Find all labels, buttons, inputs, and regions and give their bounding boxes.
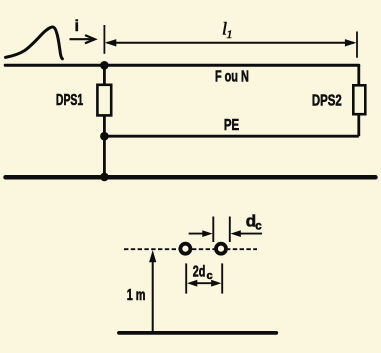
svg-text:c: c <box>255 221 262 233</box>
svg-text:1 m: 1 m <box>127 287 146 304</box>
dimension dc left arrow <box>189 233 206 235</box>
svg-text:i: i <box>75 18 79 35</box>
wire: DPS2 vertical branch <box>357 65 360 136</box>
dimension dc left tick <box>212 217 214 243</box>
impulse current waveform <box>6 27 63 59</box>
svg-text:DPS2: DPS2 <box>312 92 342 109</box>
dimension l1 right arrowhead <box>345 39 357 46</box>
dimension dc right tick <box>229 217 231 243</box>
dashed reference line through conductors <box>124 248 257 250</box>
svg-text:1: 1 <box>227 27 233 41</box>
dimension l1 left arrowhead <box>105 39 117 46</box>
dimension 2dc arrow line <box>192 282 216 284</box>
node: junction earth / DPS1 <box>100 173 109 182</box>
wire: top conductor F ou N <box>5 64 359 67</box>
svg-text:c: c <box>207 270 213 282</box>
node: junction top conductor / DPS1 <box>100 61 109 70</box>
conductor cross-section right <box>216 244 226 254</box>
dimension 2dc right arrowhead <box>211 280 221 287</box>
height arrow 1 m <box>152 260 154 333</box>
wire: earth line <box>6 175 376 180</box>
DPS1 box <box>97 85 111 116</box>
svg-text:DPS1: DPS1 <box>56 92 83 109</box>
dimension 2dc right tick <box>221 263 223 293</box>
wire: DPS1 vertical branch <box>103 65 106 177</box>
node: junction PE / DPS1 <box>100 132 109 141</box>
svg-text:PE: PE <box>224 117 240 134</box>
svg-text:2d: 2d <box>193 264 206 281</box>
ground line (lower figure) <box>119 331 276 335</box>
dimension 2dc left tick <box>185 263 187 293</box>
DPS2 box <box>353 85 365 114</box>
dimension dc right arrow <box>237 233 262 235</box>
dimension 2dc left arrowhead <box>187 280 197 287</box>
dimension l1 right tick <box>356 32 358 58</box>
dimension l1 left tick <box>103 25 105 54</box>
wire: PE conductor <box>104 135 358 138</box>
dimension l1 line <box>107 42 354 44</box>
svg-text:F ou N: F ou N <box>215 69 249 86</box>
arrow i direction <box>70 35 95 43</box>
conductor cross-section left <box>180 244 190 254</box>
